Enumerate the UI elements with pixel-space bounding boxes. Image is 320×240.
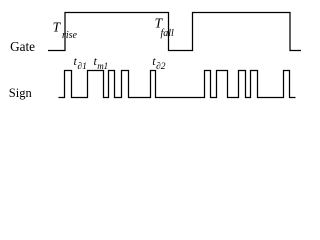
svg-text:T: T <box>53 19 62 34</box>
svg-text:∂1: ∂1 <box>77 62 86 72</box>
svg-text:fall: fall <box>161 28 175 39</box>
sign waveform <box>59 71 296 98</box>
svg-text:Gate: Gate <box>10 39 35 54</box>
svg-text:∂2: ∂2 <box>156 62 166 72</box>
svg-text:Sign: Sign <box>9 86 33 100</box>
svg-text:m1: m1 <box>97 61 108 71</box>
svg-text:rise: rise <box>62 30 78 41</box>
gate waveform <box>48 13 301 51</box>
